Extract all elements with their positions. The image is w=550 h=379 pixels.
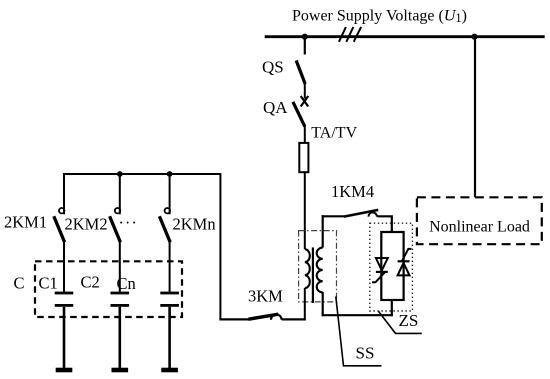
contactor 1KM4 blade bbox=[344, 210, 378, 217]
capacitor C2 plates bbox=[111, 292, 130, 307]
svg-text:···: ··· bbox=[118, 213, 137, 232]
wire: primary to 3KM node bbox=[304, 288, 306, 321]
wire: QS to QA bbox=[304, 84, 306, 99]
svg-text:Cn: Cn bbox=[117, 274, 136, 293]
wire: 2KM2 to C2 bbox=[119, 241, 121, 291]
transformer TA/TV body bbox=[299, 143, 308, 172]
switch 2KM2 contact circle bbox=[115, 208, 120, 213]
switch 2KM1 contact circle bbox=[59, 208, 64, 213]
svg-text:1KM4: 1KM4 bbox=[331, 182, 374, 201]
svg-text:QS: QS bbox=[262, 57, 284, 76]
wire: thyristor branch bottom bbox=[391, 300, 393, 316]
switch 2KMn contact circle bbox=[165, 208, 170, 213]
transformer SS dash-dot box bbox=[299, 231, 337, 302]
svg-text:C1: C1 bbox=[39, 273, 58, 292]
ground Cn bbox=[161, 368, 178, 373]
node: cap bus junction 2 bbox=[117, 171, 123, 177]
power supply bus bbox=[265, 35, 545, 38]
thyristor pair frame bbox=[381, 232, 403, 300]
svg-text:3KM: 3KM bbox=[248, 286, 283, 305]
wire: QA to TA/TV bbox=[304, 126, 306, 143]
node: bus junction left bbox=[302, 34, 308, 40]
capacitor bank bus bbox=[64, 174, 220, 319]
switch 2KM1 blade bbox=[54, 216, 65, 242]
capacitor bank dashed box C bbox=[35, 261, 182, 317]
svg-text:2KM2: 2KM2 bbox=[65, 214, 108, 233]
transformer SS secondary winding bbox=[317, 248, 323, 293]
wire: 1KM4 to thyristor branch bbox=[377, 216, 392, 232]
svg-text:2KM1: 2KM1 bbox=[4, 212, 47, 231]
switch 2KM2 blade bbox=[110, 216, 121, 242]
wire: 2KM1 to C1 bbox=[63, 241, 65, 291]
wire: 2KMn to Cn bbox=[169, 241, 171, 291]
wire: branch 3 drop bbox=[169, 174, 171, 214]
wire: Cn to ground bbox=[168, 307, 171, 368]
wire: C2 to ground bbox=[119, 307, 122, 368]
wire: bus to QS bbox=[304, 37, 306, 55]
nonlinear load dashed box bbox=[417, 197, 542, 244]
ground C1 bbox=[56, 368, 73, 373]
wire: branch 2 drop bbox=[119, 174, 121, 214]
wire: secondary bottom lead bbox=[322, 292, 324, 316]
node: cap bus junction 3 bbox=[167, 171, 173, 177]
wire: C1 to ground bbox=[63, 307, 66, 368]
ground C2 bbox=[112, 368, 129, 373]
contactor 3KM fixed contact arc bbox=[271, 315, 282, 320]
three-phase slashes bbox=[339, 27, 361, 42]
leader line SS bbox=[336, 297, 382, 366]
wire: cap bank to 3KM bbox=[219, 318, 250, 320]
wire: loop top left bbox=[322, 215, 345, 217]
node: bus junction right bbox=[471, 34, 477, 40]
wire: 3KM to main line bbox=[282, 318, 306, 320]
breaker contact X of QA bbox=[301, 96, 309, 107]
wire: loop bottom bbox=[322, 314, 393, 316]
leader line ZS bbox=[379, 311, 422, 333]
thyristor V2 (right, pointing up) bbox=[398, 249, 412, 276]
svg-text:2KMn: 2KMn bbox=[173, 214, 216, 233]
svg-text:ZS: ZS bbox=[399, 311, 419, 330]
transformer SS primary winding bbox=[305, 249, 310, 288]
svg-text:Power Supply Voltage (U1): Power Supply Voltage (U1) bbox=[292, 7, 467, 25]
capacitor C1 plates bbox=[55, 292, 74, 307]
svg-text:TA/TV: TA/TV bbox=[311, 125, 357, 142]
thyristor V1 (left, pointing down) bbox=[372, 258, 388, 282]
transformer SS core bbox=[312, 247, 314, 303]
svg-text:QA: QA bbox=[263, 98, 288, 117]
disconnector QS blade bbox=[296, 61, 305, 85]
switch 2KMn blade bbox=[159, 216, 170, 242]
breaker QA blade bbox=[293, 102, 305, 127]
svg-text:SS: SS bbox=[356, 344, 375, 363]
svg-text:C: C bbox=[14, 273, 25, 292]
svg-text:Nonlinear Load: Nonlinear Load bbox=[429, 218, 530, 235]
svg-text:C2: C2 bbox=[81, 273, 100, 292]
wire: TA/TV down to winding bbox=[304, 172, 306, 249]
wire: secondary top lead bbox=[322, 215, 324, 247]
contactor 3KM blade bbox=[249, 314, 279, 319]
ZS dotted box bbox=[370, 223, 413, 311]
contactor 1KM4 fixed contact arc bbox=[369, 212, 377, 216]
wire: bus to nonlinear load bbox=[474, 37, 476, 198]
capacitor Cn plates bbox=[160, 292, 179, 307]
